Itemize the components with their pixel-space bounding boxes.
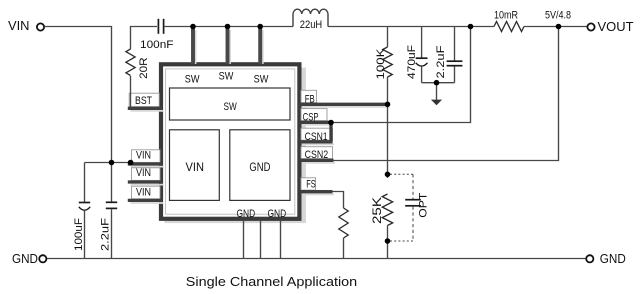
op-amp U1 controller IC body <box>161 64 306 223</box>
svg-text:GND: GND <box>237 208 256 220</box>
wire GND stub2 <box>260 221 262 259</box>
terminal VOUT <box>587 20 633 34</box>
svg-text:VIN: VIN <box>186 162 205 174</box>
capacitor C4 2.2uF <box>435 27 462 83</box>
svg-text:100K: 100K <box>375 48 387 80</box>
node output caps junction <box>434 80 440 86</box>
resistor R5 FS set <box>339 208 348 259</box>
inner block VIN <box>170 130 220 201</box>
pin BST (left) <box>128 93 164 111</box>
terminal GND right <box>586 252 626 266</box>
capacitor 100nF bootstrap <box>140 19 174 51</box>
pin FB (right) <box>300 90 390 107</box>
svg-text:BST: BST <box>135 95 152 107</box>
wire CSN1 to CSP tie <box>329 122 332 142</box>
svg-text:22uH: 22uH <box>300 19 322 31</box>
svg-text:GND: GND <box>249 162 270 174</box>
svg-text:SW: SW <box>185 74 200 86</box>
resistor R3 100K <box>375 27 392 105</box>
node SW2 <box>225 24 231 30</box>
wire sense to VOUT <box>524 26 587 28</box>
svg-text:5V/4.8: 5V/4.8 <box>545 10 571 22</box>
wire VIN input <box>44 27 111 163</box>
svg-text:GND: GND <box>268 208 287 220</box>
node SW3 <box>257 24 263 30</box>
pin SW3 stub <box>254 27 269 86</box>
node SW1 <box>190 24 196 30</box>
wire GND stub1 <box>243 221 245 259</box>
wire inductor to output node <box>328 26 494 28</box>
wire FS to resistor <box>333 192 344 209</box>
svg-text:Single Channel Application: Single Channel Application <box>186 274 357 289</box>
node 25K top <box>385 172 391 178</box>
svg-text:100uF: 100uF <box>73 218 85 251</box>
svg-text:2.2uF: 2.2uF <box>435 45 447 78</box>
resistor R2 10mR sense <box>494 10 524 32</box>
capacitor C3 470uF <box>406 27 428 83</box>
inner block GND <box>230 130 290 201</box>
svg-text:VIN: VIN <box>136 150 151 162</box>
ground symbol arrow <box>431 83 442 106</box>
wire SW node top <box>165 26 293 28</box>
pin CSP (right) <box>300 109 334 125</box>
wire CSN2 sense <box>334 27 559 161</box>
capacitor C5 OPT (optional, dashed) <box>390 174 429 241</box>
wire GND rail <box>46 258 586 260</box>
svg-text:100nF: 100nF <box>140 39 174 51</box>
terminal GND left <box>12 252 46 266</box>
svg-text:GND: GND <box>600 252 626 266</box>
wire CSP sense <box>331 27 471 123</box>
svg-text:CSN1: CSN1 <box>305 131 328 143</box>
svg-text:CSN2: CSN2 <box>305 149 329 161</box>
capacitor C2 2.2uF <box>100 163 117 259</box>
inner block SW <box>170 88 291 120</box>
pin CSN1 (right) <box>300 128 335 144</box>
svg-text:VIN: VIN <box>136 167 151 179</box>
svg-text:VOUT: VOUT <box>598 20 634 34</box>
resistor R1 20R <box>126 49 150 108</box>
node VIN pin <box>128 160 134 166</box>
pin VIN (left) <box>128 150 164 167</box>
svg-text:SW: SW <box>254 74 269 86</box>
svg-text:VIN: VIN <box>8 19 30 33</box>
svg-text:25K: 25K <box>372 197 384 224</box>
node CSP tap <box>468 24 474 30</box>
svg-text:SW: SW <box>219 71 234 83</box>
pin VIN (left) <box>128 186 164 203</box>
wire input caps to VIN pin <box>85 162 131 164</box>
svg-text:SW: SW <box>224 101 238 113</box>
inductor L1 22uH <box>293 9 328 31</box>
node FB <box>385 102 391 108</box>
resistor R4 25K <box>372 194 393 259</box>
pin SW1 stub <box>185 27 200 86</box>
capacitor C1 100uF <box>73 163 90 259</box>
wire SW node to 100nF <box>131 27 158 50</box>
svg-text:VIN: VIN <box>136 187 151 199</box>
svg-text:GND: GND <box>12 252 38 266</box>
svg-text:FB: FB <box>305 93 315 105</box>
svg-text:FS: FS <box>306 179 316 191</box>
wire output caps bottom <box>422 82 455 84</box>
node VOUT sense <box>556 24 562 30</box>
pin VIN (left) <box>128 167 164 185</box>
svg-text:OPT: OPT <box>417 192 429 217</box>
node VIN caps <box>109 160 115 166</box>
node 25K bottom <box>385 238 391 244</box>
svg-text:20R: 20R <box>138 57 150 79</box>
terminal VIN <box>8 19 44 33</box>
svg-text:CSP: CSP <box>303 112 319 124</box>
pin CSN2 (right) <box>300 147 336 163</box>
wire FB node down <box>387 104 389 178</box>
svg-text:10mR: 10mR <box>494 10 518 22</box>
svg-text:470uF: 470uF <box>406 45 418 79</box>
node CSP pin <box>328 120 334 126</box>
svg-text:2.2uF: 2.2uF <box>100 218 112 251</box>
pin FS (right) <box>300 178 335 195</box>
pin SW2 stub <box>219 27 234 83</box>
wire GND stub3 <box>280 221 282 259</box>
